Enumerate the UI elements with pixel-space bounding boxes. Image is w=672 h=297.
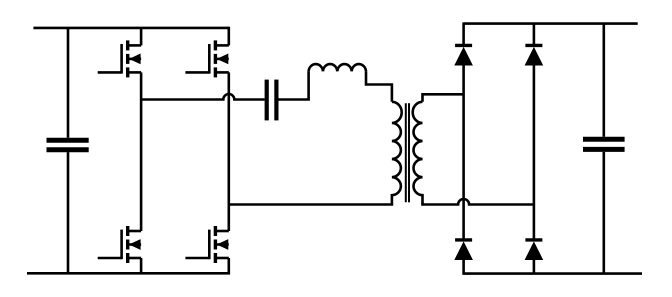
wire right rectifier branch middle (D2 anode to D4 cathode) (533, 65, 536, 240)
MOSFET Q3 (98, 226, 141, 263)
MOSFET Q2 (185, 40, 228, 77)
wire left rectifier branch: top rail to D1 (462, 22, 465, 45)
wire input top rail (33, 27, 228, 30)
wire T1 secondary top lead (423, 94, 464, 102)
wire node A vertical (Q1 source to Q3 drain) (140, 72, 143, 231)
transformer T1 core (406, 103, 409, 202)
wire T1 primary bottom to node B (229, 203, 393, 206)
diode D4 (525, 240, 542, 260)
MOSFET Q1 (98, 40, 141, 77)
wire Lr to T1 primary (366, 71, 392, 102)
wire right rectifier branch: top rail to D2 (533, 24, 536, 46)
wire right rectifier branch: D4 anode to bottom rail (533, 259, 536, 274)
transformer T1 primary winding (392, 102, 402, 205)
wire Q2 drain to top rail (228, 27, 231, 46)
diode D3 (455, 240, 472, 260)
wire node B vertical (Q2 source to Q4 drain) (228, 72, 231, 231)
capacitor Cr (series resonant) (267, 80, 277, 121)
wire T1 secondary bottom lead (with hop over left rectifier branch) (421, 199, 534, 204)
wire left rectifier branch middle (D1 anode to D3 cathode) (462, 65, 465, 240)
wire input left vertical (top lead of Cin) (67, 28, 70, 138)
wire node A to Cr (with hop over node B vertical) (141, 94, 265, 99)
transformer T1 secondary winding (413, 102, 423, 205)
capacitor Cout (583, 139, 625, 149)
wire output top rail (464, 22, 638, 25)
inductor Lr (309, 64, 366, 71)
wire input left vertical (bottom lead of Cin) (67, 152, 70, 273)
wire Q3 source to bottom rail (140, 258, 143, 273)
diode D1 (455, 45, 472, 65)
wire left rectifier branch: D3 anode to bottom rail (462, 259, 465, 275)
wire Q4 source to bottom rail (228, 258, 231, 275)
diode D2 (525, 45, 542, 65)
wire Q1 drain to top rail (140, 28, 143, 46)
wire output bottom rail (464, 272, 642, 275)
MOSFET Q4 (185, 226, 228, 263)
wire Cr to Lr (279, 71, 309, 99)
wire output cap top lead (602, 24, 605, 137)
wire input bottom rail (27, 272, 230, 275)
capacitor Cin (47, 140, 89, 150)
wire output cap bottom lead (602, 152, 605, 274)
